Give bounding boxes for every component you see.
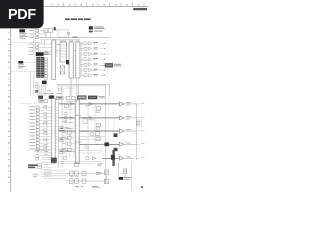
component box y132 xyxy=(90,133,93,136)
speaker output bus vertical xyxy=(136,104,138,160)
label x62 y121 xyxy=(63,121,67,124)
center top small box xyxy=(39,100,44,103)
bus tap text labels xyxy=(65,127,69,130)
left border row index digits xyxy=(8,39,10,179)
row 4 output wire xyxy=(124,143,137,145)
tuner block port xyxy=(67,32,69,34)
top jack group bus line xyxy=(33,29,35,56)
digital in boxes low xyxy=(38,163,42,165)
page number xyxy=(141,186,143,188)
band risers xyxy=(62,86,78,96)
left wire x33.3 xyxy=(32,75,34,96)
top border column ticks xyxy=(52,3,144,7)
headphone amp triangle xyxy=(93,157,96,160)
tuner block outline xyxy=(58,30,69,37)
phones row labels below xyxy=(70,175,74,178)
headphone series box xyxy=(86,157,89,160)
bus side label 2 xyxy=(69,121,73,124)
stray label c xyxy=(63,151,66,154)
top input jacks xyxy=(36,29,39,55)
input jack rows xyxy=(30,106,52,151)
volume IC white label xyxy=(106,64,112,67)
band small box C xyxy=(66,96,70,99)
input selector IC U21 xyxy=(52,99,56,164)
buffer IC U22 xyxy=(75,100,79,163)
label x90 y119 xyxy=(90,119,94,122)
bold output row 3 wire xyxy=(59,130,120,132)
legend symbol box row 2 xyxy=(89,31,93,33)
tuner IF IC U11 xyxy=(52,40,56,80)
wires into center top xyxy=(40,92,44,96)
relay RY1 box xyxy=(60,66,65,74)
mid vertical wire x95 xyxy=(94,104,96,144)
selector right bus line 1 xyxy=(58,100,60,168)
digital in boxes mid xyxy=(36,155,39,157)
bus tap box 3 xyxy=(59,150,64,154)
wires below U13 U14 xyxy=(70,78,78,96)
wires right of U22 xyxy=(78,136,105,138)
vertical wire x56 to band xyxy=(55,40,57,57)
mid bus corner vertical xyxy=(108,84,110,96)
selector right bus line 2 xyxy=(61,100,63,168)
DAC row right extensions xyxy=(99,43,106,76)
mid bus wire 2 xyxy=(57,85,105,87)
left wire x30.7 xyxy=(30,70,32,96)
row 2 preamp triangle xyxy=(89,116,93,119)
model number box top right xyxy=(133,8,147,10)
capacitor C41 xyxy=(124,169,127,174)
band label text above xyxy=(44,92,54,95)
bottom fanout wires xyxy=(44,171,66,178)
row 3 output label xyxy=(126,128,131,131)
label x85 y105 xyxy=(85,105,89,108)
legend row 2 text xyxy=(94,30,103,33)
left border row ticks xyxy=(8,33,11,183)
selector dark bottom block xyxy=(51,158,57,163)
inline component labels xyxy=(44,105,48,145)
left note label box 1 xyxy=(19,29,25,32)
DSP input IC U12 xyxy=(60,42,67,62)
components cluster row3b xyxy=(96,137,100,140)
right center vertical bus xyxy=(104,86,106,184)
band black label box xyxy=(88,96,97,100)
bus side label 1 xyxy=(69,108,73,111)
components cluster row3 xyxy=(96,132,100,136)
bottom center thin wires b xyxy=(59,160,102,162)
labels near tall rects xyxy=(57,43,61,46)
U12 internal stripes xyxy=(61,45,66,57)
DAC output channel rows xyxy=(80,42,98,77)
row 2 power amp triangle xyxy=(119,116,123,120)
bold output row 4 wire xyxy=(75,143,119,145)
bottom left tiny labels xyxy=(33,173,38,176)
optical label dark row 1 xyxy=(28,164,38,166)
subwoofer jack link xyxy=(106,175,108,180)
dark block mid right xyxy=(114,133,118,137)
left note text lines 1 xyxy=(19,32,27,35)
box left of U22 bottom xyxy=(64,157,67,160)
band text right xyxy=(99,95,105,98)
dark mute block xyxy=(111,155,115,160)
DSP decoder IC U13 xyxy=(69,42,74,78)
row connector verticals xyxy=(66,104,74,158)
dark block near U12 xyxy=(66,60,69,64)
PDF badge xyxy=(0,0,44,28)
board boundary dashed line lower left xyxy=(11,71,38,73)
dark block mid right 2 xyxy=(114,148,118,151)
phones row 2 boxes xyxy=(69,179,73,184)
row 1 power amp triangle xyxy=(119,102,123,106)
bold output row 5 wire xyxy=(102,157,119,159)
bus tap box 1 xyxy=(59,127,64,131)
small box above black box xyxy=(45,78,48,80)
wire into selector bottom xyxy=(59,151,76,153)
row 2 label above xyxy=(75,114,81,117)
board boundary dashed line upper left xyxy=(11,42,46,44)
component box below row2 xyxy=(83,119,87,123)
band outline box B xyxy=(57,96,64,99)
left border line xyxy=(10,29,12,192)
IC terminal block hatch xyxy=(37,59,45,77)
small dark box top xyxy=(54,27,56,30)
bold output row 1 wire xyxy=(59,103,120,105)
row 5 output label xyxy=(126,156,131,159)
cluster left stub wires xyxy=(34,59,37,74)
legend symbol black box row 1 xyxy=(89,26,93,29)
row 5 output wire xyxy=(124,157,134,159)
small box x58 y88 xyxy=(59,88,62,90)
mid vertical wire x88 xyxy=(87,104,89,158)
IC terminal block outline xyxy=(37,57,45,78)
left small dark box xyxy=(35,90,38,93)
subwoofer jack 1 xyxy=(104,170,108,175)
board dashed boundary above jacks xyxy=(20,103,40,105)
bottom wire labels 2 xyxy=(92,185,98,188)
center top small box 2 xyxy=(44,100,48,103)
dashed vertical right of DAC rows xyxy=(107,40,109,78)
left note label box 2 xyxy=(18,61,23,64)
row 5 power amp triangle xyxy=(119,156,123,160)
relay RY1 cross xyxy=(60,66,65,74)
bottom rows to U22 xyxy=(62,131,75,151)
row 4 dark component box xyxy=(105,142,110,146)
small box with mark x44 y51 xyxy=(44,52,48,55)
top border column index digits xyxy=(58,4,140,6)
diagram title AUDIO SECTION BLOCK DIAGRAM xyxy=(65,18,91,20)
cell strip right of terminal block xyxy=(45,58,48,77)
antenna block 1 xyxy=(44,29,48,33)
bus side box 2 xyxy=(64,120,67,122)
vertical wire far bottom right xyxy=(131,162,133,190)
band dark box A xyxy=(49,95,54,98)
legend row 1 text xyxy=(94,26,104,29)
input board label box xyxy=(36,52,44,56)
stray label a xyxy=(44,150,48,153)
bus side box 1 xyxy=(64,113,67,115)
top jack wires xyxy=(39,31,52,55)
DAC bus vertical right of U14 xyxy=(81,42,83,75)
top horizontal bus wire 1 xyxy=(40,37,110,39)
label near x83 y131 xyxy=(83,130,88,133)
top jack labels xyxy=(29,30,33,55)
row 2 output label xyxy=(126,115,131,118)
phones row 1 boxes xyxy=(69,171,73,176)
row 4 power amp triangle xyxy=(119,142,123,146)
U12 top label xyxy=(60,40,66,43)
vertical dashed board line a xyxy=(101,98,103,152)
speaker terminal label box xyxy=(136,120,141,126)
phones row 1 wire xyxy=(66,172,105,174)
labels below cluster xyxy=(47,90,51,93)
DAC IC U14 xyxy=(76,42,80,78)
output stubs and labels xyxy=(137,103,145,158)
antenna block wires xyxy=(45,33,47,38)
component box y146 xyxy=(85,146,88,149)
U22 bottom terminal box xyxy=(75,162,79,166)
bold output row 2 wire xyxy=(59,117,120,119)
row 4 output label xyxy=(126,142,131,145)
optical label dark row 2 xyxy=(28,167,35,169)
black box below cluster xyxy=(42,81,47,85)
phones row 1 label xyxy=(96,171,102,174)
U14 top label xyxy=(76,40,80,43)
center top dark box xyxy=(38,96,43,99)
digital in boxes top xyxy=(35,150,38,152)
volume IC U15 gray box xyxy=(105,63,113,67)
top horizontal bus wire 2 xyxy=(40,38,80,40)
box below row2 left xyxy=(64,116,67,118)
band small box D xyxy=(71,96,75,99)
cluster output wires xyxy=(38,84,46,96)
row 4 label above xyxy=(75,141,81,144)
mid bus wire 1 xyxy=(57,83,109,85)
wire to volume IC xyxy=(99,64,105,66)
antenna drop wires xyxy=(41,40,43,45)
vertical dashed board line b xyxy=(108,98,110,150)
row 3 output wire xyxy=(124,130,137,132)
tone control components row1 xyxy=(97,107,101,110)
dark relay block xyxy=(112,150,114,166)
left small box pair b xyxy=(36,86,39,88)
component box below row1 xyxy=(65,104,69,107)
input board label text xyxy=(44,52,50,55)
left note text lines 2 xyxy=(18,64,24,67)
vertical dashed board boundary left xyxy=(28,104,30,152)
row 2 output wire xyxy=(124,117,137,119)
volume IC text right xyxy=(114,63,121,66)
board boundary dashed line mid left xyxy=(23,62,47,64)
bus label dash xyxy=(73,36,78,39)
row 1 output label xyxy=(126,101,131,104)
U13 top label xyxy=(69,40,73,43)
row 1 label above xyxy=(67,100,73,103)
stray label b xyxy=(45,153,48,156)
row 1 preamp triangle xyxy=(89,102,93,105)
vertical dashed board line c xyxy=(113,98,115,133)
left small box pair a xyxy=(36,83,39,85)
phones row 2 wire xyxy=(66,180,105,182)
antenna block 2 xyxy=(49,29,53,33)
bus tap box 2 xyxy=(59,138,64,142)
label x62 y148 xyxy=(63,147,67,150)
row 3 label above xyxy=(67,127,73,130)
digital cluster wires xyxy=(42,151,52,177)
jack column mid vertical xyxy=(46,116,48,146)
row 1 output wire xyxy=(124,103,137,105)
note legend black box xyxy=(119,177,123,180)
band gray DSP label box xyxy=(77,96,86,100)
row 2 mid buffer triangle xyxy=(70,116,73,119)
tone control components row2 xyxy=(97,123,101,126)
bottom wire labels 1 xyxy=(75,185,79,188)
mid horizontal wire y88 xyxy=(57,87,75,89)
subwoofer jack 2 xyxy=(104,179,108,184)
row 1 mid buffer triangle xyxy=(70,102,73,105)
schematic top border line xyxy=(43,6,149,8)
bottom center thin wires a xyxy=(78,150,102,152)
vertical wire mid bottom right xyxy=(117,163,119,177)
top jack feeder vertical xyxy=(45,31,47,38)
IC terminal block center gap xyxy=(39,57,41,78)
page background xyxy=(0,0,149,198)
row 3 power amp triangle xyxy=(119,129,123,133)
selector row stubs xyxy=(55,107,58,149)
rec out labels xyxy=(97,163,102,166)
svg-text:PDF: PDF xyxy=(8,7,36,23)
tuner link wire xyxy=(56,29,58,31)
capacitor lower stub xyxy=(124,174,126,177)
inline component boxes on jack rows xyxy=(44,106,47,150)
vertical wire x59 to U12 xyxy=(58,40,60,42)
note legend text xyxy=(124,176,131,179)
